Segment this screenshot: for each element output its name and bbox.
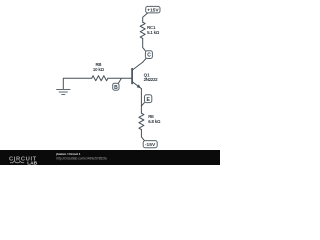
svg-text:2N2222: 2N2222	[144, 77, 159, 82]
svg-text:http://circuitlab.com/c/499e57: http://circuitlab.com/c/499e57852fa	[56, 157, 107, 161]
svg-text:5.1 kΩ: 5.1 kΩ	[147, 30, 160, 35]
svg-text:10 kΩ: 10 kΩ	[93, 67, 105, 72]
svg-text:+15V: +15V	[147, 8, 159, 14]
svg-text:6.8 kΩ: 6.8 kΩ	[148, 119, 161, 124]
svg-text:B: B	[114, 85, 118, 91]
svg-text:jhalom / Circuit 1: jhalom / Circuit 1	[55, 152, 81, 156]
svg-text:LAB: LAB	[27, 160, 37, 165]
svg-text:-15V: -15V	[145, 142, 156, 148]
svg-text:C: C	[147, 53, 151, 59]
